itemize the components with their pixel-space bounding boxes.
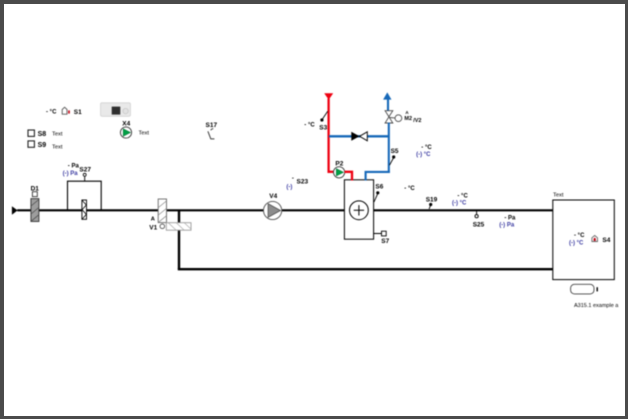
- svg-text:S17: S17: [206, 122, 218, 129]
- main supply duct left segment: [17, 209, 344, 211]
- filter F1: [82, 200, 87, 219]
- red pipe to pump: [328, 171, 335, 173]
- blue pipe arrow to valve: [387, 99, 389, 111]
- svg-text:V4: V4: [269, 193, 277, 200]
- S19 value labels: [452, 194, 468, 207]
- svg-text:- °C: - °C: [574, 233, 585, 239]
- svg-text:S4: S4: [602, 237, 610, 244]
- blue pipe to coil: [366, 172, 390, 181]
- S25 value labels: [499, 215, 516, 228]
- checkbox S8: [28, 130, 63, 138]
- svg-text:S9: S9: [38, 142, 47, 149]
- sensor S3: [304, 111, 327, 131]
- svg-text:S23: S23: [297, 179, 309, 186]
- fan V4: [264, 193, 282, 219]
- svg-text:S25: S25: [473, 222, 485, 229]
- switch X4 housing: [101, 103, 131, 117]
- svg-text:A: A: [405, 110, 409, 115]
- svg-text:S7: S7: [381, 238, 389, 245]
- S5 value labels: [416, 145, 432, 158]
- pump P2: [334, 161, 345, 178]
- damper V1: [149, 199, 191, 232]
- blue return arrow: [383, 92, 391, 99]
- red pipe pump to coil: [345, 172, 353, 181]
- room box: [553, 192, 615, 279]
- sensor S27 differential pressure: [63, 163, 102, 210]
- svg-text:- °C: - °C: [304, 122, 315, 128]
- svg-text:- Pa: - Pa: [504, 215, 516, 221]
- svg-text:Text: Text: [52, 132, 63, 138]
- damper D1: [31, 185, 40, 221]
- svg-text:(-) Pa: (-) Pa: [499, 223, 515, 229]
- button X4: [120, 121, 149, 139]
- svg-text:S1: S1: [74, 109, 82, 116]
- svg-text:A: A: [151, 217, 155, 223]
- check valve: [329, 132, 389, 141]
- svg-text:Text: Text: [139, 131, 150, 137]
- svg-text:/V2: /V2: [413, 118, 421, 124]
- svg-text:(-) °C: (-) °C: [452, 201, 467, 207]
- heater coil box: [344, 180, 373, 239]
- inlet arrow: [12, 206, 18, 214]
- svg-text:- °C: - °C: [457, 194, 468, 200]
- svg-text:S27: S27: [79, 166, 91, 173]
- svg-text:- Pa: - Pa: [68, 163, 80, 169]
- main supply duct right segment: [374, 209, 553, 211]
- svg-text:S8: S8: [38, 131, 47, 138]
- svg-text:(-) °C: (-) °C: [569, 241, 584, 247]
- checkbox S9: [28, 141, 63, 151]
- svg-text:Text: Text: [52, 145, 63, 151]
- red supply arrow: [324, 93, 333, 100]
- svg-text:Text: Text: [553, 192, 564, 198]
- return duct vertical: [178, 210, 180, 269]
- valve M2/V2: [385, 110, 421, 124]
- svg-text:S19: S19: [426, 197, 438, 204]
- svg-text:V1: V1: [149, 225, 157, 232]
- svg-text:S3: S3: [319, 125, 327, 132]
- return duct horizontal: [178, 268, 553, 270]
- sensor S5: [390, 148, 399, 165]
- button I: [571, 284, 598, 294]
- sensor S7: [374, 231, 390, 245]
- svg-text:- °C: - °C: [404, 186, 415, 192]
- svg-text:(-) °C: (-) °C: [416, 152, 431, 158]
- red pipe vertical: [327, 99, 329, 173]
- svg-text:S5: S5: [391, 148, 399, 155]
- switch S17: [206, 122, 218, 139]
- svg-text:- °C: - °C: [421, 145, 432, 151]
- sensor S6: [374, 184, 384, 202]
- svg-text:S6: S6: [375, 184, 383, 191]
- sensor S1 outdoor temperature: [46, 107, 82, 116]
- svg-text:-: -: [292, 176, 294, 182]
- sensor S23 label: [286, 176, 308, 191]
- blue pipe valve down: [388, 123, 390, 173]
- svg-text:- °C: - °C: [46, 110, 57, 116]
- svg-text:A315.1 example a: A315.1 example a: [574, 303, 619, 309]
- sensor S25: [473, 211, 485, 229]
- svg-text:(-): (-): [286, 185, 292, 191]
- room sensor S4: [569, 233, 611, 247]
- svg-text:X4: X4: [122, 121, 130, 128]
- svg-text:M2: M2: [404, 116, 412, 122]
- sensor S19: [426, 197, 438, 209]
- svg-text:(-) Pa: (-) Pa: [63, 171, 79, 177]
